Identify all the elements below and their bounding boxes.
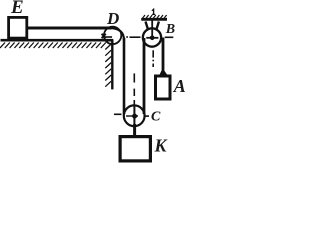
svg-text:C: C bbox=[151, 110, 161, 125]
pulley C center cross line bbox=[126, 115, 138, 117]
ceiling bar of B bbox=[141, 18, 167, 21]
axle line of B bbox=[151, 21, 153, 40]
link C to K (wire) bbox=[133, 124, 136, 137]
svg-text:K: K bbox=[154, 136, 169, 156]
pulley D bbox=[104, 27, 121, 44]
wire B to A (right rope of B) bbox=[162, 38, 165, 72]
ground hatching bbox=[0, 43, 106, 49]
node D axle mark bbox=[102, 34, 106, 38]
pulley B center dot bbox=[150, 36, 155, 41]
svg-text:E: E bbox=[10, 0, 24, 18]
svg-text:В: В bbox=[165, 22, 175, 37]
weight A box bbox=[156, 76, 171, 99]
dashed center line right of C bbox=[145, 115, 149, 117]
label 1 bbox=[152, 9, 155, 14]
pulley C center dot bbox=[132, 114, 137, 119]
dashed axle line below B bbox=[152, 50, 154, 67]
pulley B center cross line bbox=[146, 37, 158, 39]
svg-text:D: D bbox=[106, 9, 119, 28]
block E bbox=[9, 17, 27, 38]
pulley C bbox=[124, 105, 145, 126]
wall (table edge) bbox=[111, 39, 113, 89]
ground line bbox=[1, 39, 114, 42]
wire C to B (left rope of B) bbox=[143, 38, 146, 114]
dashed axle line above C bbox=[133, 73, 135, 104]
wall hatching bbox=[105, 44, 111, 87]
cord E to D wrap and down to C (wire) bbox=[27, 27, 112, 30]
ceiling hatching above B bbox=[142, 15, 167, 20]
axle line inside C bbox=[133, 106, 135, 125]
pulley B bbox=[143, 28, 161, 46]
bracket legs of B bbox=[146, 22, 148, 30]
dashed center line D to B bbox=[106, 36, 141, 38]
svg-text:A: A bbox=[173, 76, 185, 96]
dashed center line left of C bbox=[114, 113, 122, 115]
hook of weight A bbox=[160, 71, 167, 75]
dashed center line right of B bbox=[165, 36, 174, 38]
weight K box bbox=[120, 137, 150, 161]
